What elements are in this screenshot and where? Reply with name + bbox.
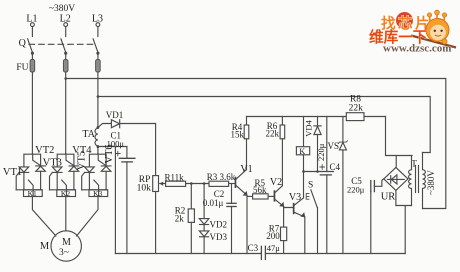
thyristor VT1 <box>3 167 29 190</box>
svg-text:Q: Q <box>19 38 27 49</box>
svg-text:200: 200 <box>266 231 280 241</box>
svg-text:22k: 22k <box>265 129 279 139</box>
logo mascot hand <box>442 39 447 44</box>
wire VD1 to RP top <box>120 124 156 176</box>
logo mascot stick <box>411 36 456 48</box>
resistor R3 <box>207 172 236 186</box>
potentiometer RP <box>137 175 166 254</box>
logo red seal circle <box>396 12 413 29</box>
junction dot VD4 node <box>316 170 319 173</box>
svg-text:FU: FU <box>16 63 28 73</box>
wire L3 drop to switch <box>97 27 99 37</box>
zener diode VS <box>328 117 348 254</box>
relay coil K <box>296 117 309 172</box>
svg-text:VT1: VT1 <box>3 167 22 178</box>
resistor R6 <box>265 117 284 186</box>
logo mascot crown <box>430 13 445 21</box>
transformer T secondary coil <box>409 156 412 206</box>
wire V1 emitter node down to rail <box>246 195 248 253</box>
fuse FU phase 3 <box>96 59 101 72</box>
junction dot TA bottom <box>97 145 100 148</box>
svg-text:R11k: R11k <box>165 173 185 183</box>
svg-text:V2: V2 <box>270 177 282 188</box>
thyristor VT2 (anti-parallel, leg 1) <box>28 145 54 195</box>
svg-text:VT2: VT2 <box>35 145 54 156</box>
motor M 3~ <box>40 231 82 261</box>
switch Q gang dashed link <box>29 43 94 45</box>
wire R8 output down and across to UR/T <box>386 117 413 156</box>
wire rail B from L3 to right side <box>98 97 430 153</box>
svg-text:UR: UR <box>381 191 396 202</box>
svg-text:VD3: VD3 <box>210 232 228 242</box>
wire rail A from L2 to right side <box>66 79 446 209</box>
switch Q pole 3 <box>93 39 99 54</box>
svg-text:220μ: 220μ <box>347 184 365 194</box>
junction dot L3 rail B <box>97 95 100 98</box>
resistor R8 <box>346 95 385 121</box>
diode VD3 <box>199 225 227 254</box>
wire leg2 to motor <box>65 197 67 231</box>
svg-text:C4: C4 <box>330 162 341 172</box>
wire DC feed rail (R4 top to R8) <box>247 116 347 118</box>
thyristor pair leg 1 loop <box>16 154 42 190</box>
wire stub to UR top vertex <box>395 156 397 168</box>
capacitor C3 (in series in bottom rail) <box>248 243 281 259</box>
switch Q pole 2 <box>61 39 67 54</box>
wire switch to fuse L3 <box>97 53 99 60</box>
wire phase L3 down to TA <box>97 72 99 128</box>
junction dot TA top <box>97 126 100 129</box>
svg-text:22k: 22k <box>349 103 364 113</box>
thyristor VT6 (anti-parallel, leg 3) <box>94 144 115 195</box>
fuse FU phase 1 <box>30 59 35 72</box>
wire switch to fuse L2 <box>65 53 67 60</box>
wire V3 collector up to K node <box>303 172 305 198</box>
wire leg1 to motor <box>32 197 56 236</box>
thyristor pair leg 3 loop <box>82 154 108 190</box>
wire phase L3 TA to thyristor leg 3 <box>97 146 99 154</box>
svg-text:47μ: 47μ <box>267 243 281 253</box>
transformer T primary coil <box>423 153 426 209</box>
wire switch to fuse L1 <box>31 53 33 60</box>
wire R1 to R3 <box>186 183 209 185</box>
resistor R1 <box>165 173 186 187</box>
node L3 terminal <box>92 14 103 27</box>
capacitor C2 <box>203 184 236 254</box>
svg-text:VT6: VT6 <box>104 144 115 163</box>
wire bottom common rail left of C3 <box>115 253 261 255</box>
svg-text:15k: 15k <box>230 129 244 139</box>
transformer TA primary coil <box>95 128 98 145</box>
switch Q pole 1 <box>28 39 34 54</box>
svg-text:VD1: VD1 <box>106 110 124 120</box>
svg-text:VT5: VT5 <box>77 151 88 170</box>
wire V2 emitter to V3 base <box>284 207 293 208</box>
junction dot L2 rail A <box>64 77 67 80</box>
thyristor VT5 <box>77 151 95 190</box>
node L2 terminal <box>60 14 71 27</box>
svg-text:S: S <box>308 180 313 190</box>
transistor V1 <box>235 164 253 196</box>
wire L2 drop to switch <box>65 27 67 37</box>
wire UR bottom vertex to rail <box>396 190 412 253</box>
resistor R2 <box>175 184 195 254</box>
bridge rectifier UR <box>381 167 408 202</box>
svg-text:VT3: VT3 <box>43 157 62 168</box>
svg-text:220μ: 220μ <box>316 143 326 161</box>
wire K/VD4/C4 junction <box>304 171 334 173</box>
capacitor C4 <box>316 117 340 254</box>
wire TA bottom to C1 <box>98 146 127 148</box>
fuse FU phase 2 <box>63 59 68 72</box>
svg-text:TA: TA <box>82 129 95 140</box>
transformer T core <box>416 166 419 193</box>
svg-text:R3 3.6k: R3 3.6k <box>207 172 236 182</box>
junction dot K node <box>302 170 305 173</box>
svg-text:2k: 2k <box>175 213 185 223</box>
thyristor pair leg 2 loop <box>50 154 76 190</box>
thyristor VT3 <box>43 157 62 190</box>
diode VD1 <box>106 110 124 128</box>
transistor V3 <box>289 192 305 217</box>
wire bottom common rail right of C3 <box>265 253 405 255</box>
wire R3 to V1 base <box>229 183 235 185</box>
wire common return drop <box>114 147 116 254</box>
svg-text:C3: C3 <box>248 243 259 253</box>
svg-text:V1: V1 <box>240 164 252 175</box>
contact K3 <box>89 189 108 198</box>
svg-text:www.dzsc.com: www.dzsc.com <box>383 43 451 55</box>
svg-text:K: K <box>299 147 305 156</box>
wire L1 drop to switch <box>31 27 33 37</box>
svg-text:3~: 3~ <box>59 248 69 258</box>
svg-text:V3: V3 <box>289 192 301 203</box>
contact K2 <box>57 189 76 198</box>
resistor R7 <box>266 224 286 254</box>
diode VD2 <box>199 184 227 230</box>
capacitor C5 <box>347 176 374 254</box>
wire leg3 to motor <box>77 197 98 236</box>
svg-text:10k: 10k <box>137 183 152 193</box>
svg-text:0.01μ: 0.01μ <box>203 198 224 208</box>
capacitor C1 <box>107 131 135 254</box>
node L1 terminal <box>26 14 37 27</box>
svg-text:56k: 56k <box>253 185 267 195</box>
wire TA top to VD1 <box>98 124 112 128</box>
svg-text:VD2: VD2 <box>210 220 228 230</box>
wire V2 emitter node down to R7 <box>283 207 285 228</box>
resistor R4 <box>230 117 248 170</box>
wire phase L2 down to thyristor leg 2 <box>65 72 67 154</box>
svg-text:VD4: VD4 <box>304 119 314 136</box>
switch S <box>306 180 317 253</box>
svg-text:~380V: ~380V <box>49 4 75 14</box>
logo mascot eyes <box>434 30 436 32</box>
thyristor VT4 (anti-parallel, leg 2) <box>62 145 93 195</box>
wire phase L1 down to thyristor leg 1 <box>31 72 33 154</box>
transistor V2 <box>270 177 284 207</box>
wire V3 emitter down to rail <box>304 217 306 254</box>
svg-text:~380V: ~380V <box>426 170 436 195</box>
svg-text:M: M <box>40 241 50 252</box>
logo mascot head <box>426 19 449 42</box>
junction dot VD2 tap <box>203 182 206 185</box>
wire UR left vertex to C5 <box>374 179 383 186</box>
watermark logo dzsc <box>369 10 456 54</box>
contact K1 <box>24 189 43 198</box>
wire V1 emitter to R5 <box>247 195 253 197</box>
svg-text:VS: VS <box>328 141 340 151</box>
junction dot R2 tap <box>190 182 193 185</box>
diode VD4 <box>304 117 322 172</box>
resistor R5 <box>253 178 274 199</box>
svg-text:M: M <box>62 237 71 248</box>
